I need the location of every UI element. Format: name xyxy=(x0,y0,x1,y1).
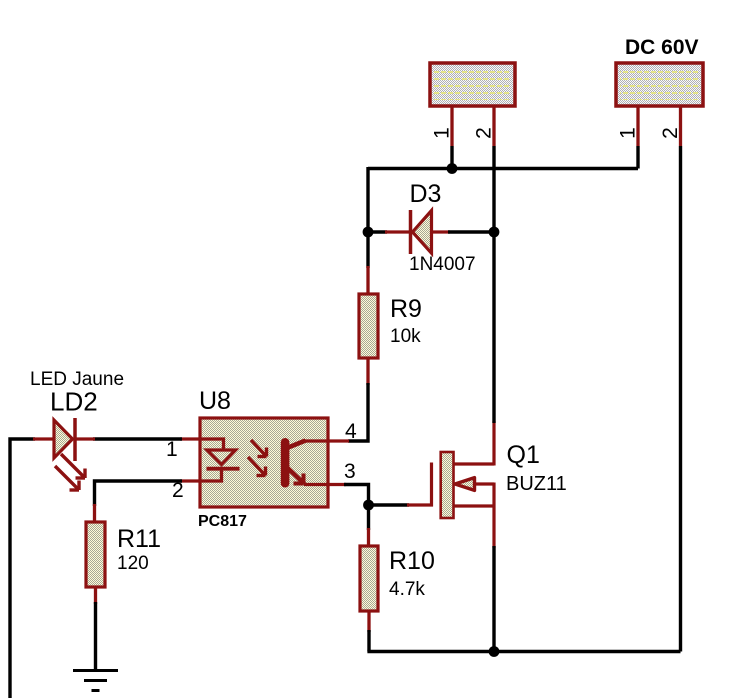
wire gate node down to R10 xyxy=(367,505,370,530)
svg-text:R9: R9 xyxy=(390,295,422,323)
svg-text:1: 1 xyxy=(431,127,454,139)
U8 phototransistor emitter xyxy=(287,468,305,485)
svg-text:R11: R11 xyxy=(117,525,161,553)
pin D3 cathode (red) xyxy=(432,230,451,233)
pin U8-4 stub (red) xyxy=(328,439,349,442)
svg-text:BUZ11: BUZ11 xyxy=(506,473,567,495)
svg-text:10k: 10k xyxy=(390,326,421,347)
wire gate node to Q1 gate xyxy=(369,503,410,506)
svg-text:LD2: LD2 xyxy=(50,387,98,417)
svg-text:R10: R10 xyxy=(389,547,435,575)
pin Q1 gate (red) xyxy=(407,503,433,506)
U8 internal light arrow 2 xyxy=(248,457,266,476)
wire right-conn-2 down to bottom rail xyxy=(679,146,682,652)
wire drain to D3 node xyxy=(492,232,495,423)
wire LED to U8 pin1 xyxy=(93,437,182,440)
Q1 gate bar xyxy=(430,463,433,507)
svg-text:4.7k: 4.7k xyxy=(389,579,425,600)
transistor Q1 channel bar xyxy=(441,452,454,518)
wire R11 to ground xyxy=(94,602,97,671)
optocoupler U8 body xyxy=(200,418,328,507)
U8 internal led anode path xyxy=(200,439,224,451)
wire source down to bottom rail xyxy=(492,546,495,652)
wire D3 left node down xyxy=(366,232,369,268)
wire bottom rail xyxy=(367,650,680,653)
wire top horizontal rail xyxy=(368,167,638,170)
svg-text:Q1: Q1 xyxy=(507,441,540,469)
U8 internal led cathode bar xyxy=(207,467,240,471)
pin right-conn-2 xyxy=(679,106,682,146)
pin U8-2 stub (red) xyxy=(180,479,200,482)
U8 pin4 internal lead xyxy=(304,439,328,442)
junction gate node xyxy=(363,500,374,511)
pin R9 bottom (red) xyxy=(366,358,369,385)
pin R10 bottom (red) xyxy=(367,611,370,632)
Q1 drain lead xyxy=(454,462,495,465)
svg-text:3: 3 xyxy=(344,460,356,483)
U8 internal led triangle xyxy=(207,450,236,465)
wire right-conn-1 down xyxy=(636,146,639,169)
junction D3 anode node xyxy=(363,227,374,238)
Q1 body lead xyxy=(475,482,494,485)
svg-text:D3: D3 xyxy=(410,180,442,208)
resistor R11 body xyxy=(86,522,105,587)
pin LD2 anode (red) xyxy=(33,437,55,440)
LED LD2 triangle xyxy=(54,420,73,458)
junction D3 cathode node xyxy=(489,227,500,238)
svg-text:120: 120 xyxy=(117,553,149,574)
wire D3 right black segment xyxy=(448,230,494,233)
connector J1 (left header) xyxy=(430,63,515,106)
pin R10 top (red) xyxy=(367,528,370,548)
pin left-conn-1 xyxy=(450,106,453,146)
pin R11 bottom (red) xyxy=(94,587,97,604)
U8 emitter arrowhead xyxy=(294,474,304,484)
U8 phototransistor collector xyxy=(287,441,306,449)
ground symbol xyxy=(73,671,118,691)
svg-text:4: 4 xyxy=(345,420,357,443)
svg-text:1: 1 xyxy=(166,438,178,461)
wire left-conn-1 down xyxy=(450,146,453,169)
svg-text:2: 2 xyxy=(473,127,496,139)
svg-text:1: 1 xyxy=(617,127,640,139)
wire left-conn-2 down to D3 xyxy=(492,146,495,232)
wire top rail corner down to D3 xyxy=(366,167,369,232)
pin Q1 source riser (red) xyxy=(492,506,495,548)
svg-text:DC 60V: DC 60V xyxy=(625,36,699,59)
pin D3 anode (red) xyxy=(385,230,410,233)
LD2 emission arrow 1 xyxy=(61,454,85,478)
wire R9 bottom to U8 pin4 corner xyxy=(348,383,368,441)
svg-text:U8: U8 xyxy=(199,387,231,415)
pin R11 top (red) xyxy=(93,504,96,524)
diode D3 triangle xyxy=(413,211,432,254)
Q1 source lead xyxy=(454,504,495,507)
pin right-conn-1 xyxy=(636,106,639,146)
pin U8-3 stub (red) xyxy=(328,483,346,486)
pin LD2 cathode (red) xyxy=(75,437,95,440)
svg-text:1N4007: 1N4007 xyxy=(409,254,476,275)
resistor R10 body xyxy=(360,546,378,611)
resistor R9 body xyxy=(359,294,378,358)
U8 internal led cathode path xyxy=(200,469,222,481)
U8 pin3 internal lead xyxy=(304,483,328,486)
LD2 emission arrow 2 xyxy=(55,466,79,490)
U8 internal light arrow 1 xyxy=(251,440,267,457)
pin U8-1 stub (red) xyxy=(180,437,200,440)
pin R9 top (red) xyxy=(366,266,369,296)
Q1 body arrow triangle xyxy=(455,478,475,491)
junction top rail / conn1 xyxy=(447,163,458,174)
diode D3 cathode bar xyxy=(409,210,413,254)
wire U8 pin2 corner to R11 xyxy=(95,481,183,506)
svg-text:2: 2 xyxy=(659,127,682,139)
wire left rail from LED anode xyxy=(10,439,35,698)
wire D3 left black segment xyxy=(368,230,387,233)
connector J2 DC 60V (right header) xyxy=(616,63,703,106)
U8 phototransistor base bar xyxy=(281,438,290,488)
Q1 body riser xyxy=(492,483,495,507)
wire U8 pin3 to gate junction xyxy=(344,485,369,506)
wire R10 to bottom rail xyxy=(367,630,370,652)
svg-text:PC817: PC817 xyxy=(198,513,247,530)
junction bottom rail / source xyxy=(489,646,500,657)
pin left-conn-2 xyxy=(492,106,495,146)
pin Q1 drain riser (red) xyxy=(492,421,495,466)
LED LD2 cathode bar xyxy=(73,418,77,461)
